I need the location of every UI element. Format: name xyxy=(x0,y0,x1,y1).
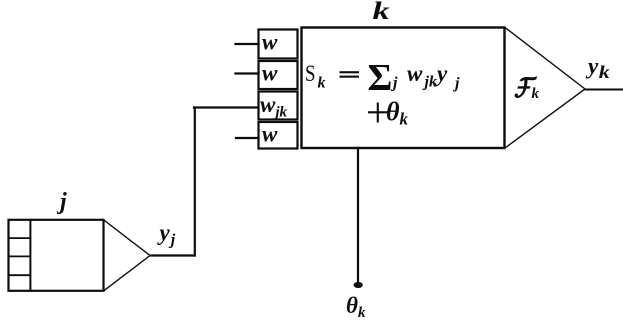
svg-text:k: k xyxy=(318,75,326,92)
svg-text:Σ: Σ xyxy=(368,57,393,99)
input unit j cell line 3 xyxy=(9,274,31,276)
input unit j activation triangle xyxy=(104,220,151,291)
svg-text:w: w xyxy=(262,30,278,55)
svg-text:θk: θk xyxy=(346,293,366,320)
wire input 3 horizontal (from node to w_jk) xyxy=(194,106,259,108)
svg-text:k: k xyxy=(532,86,540,102)
svg-text:y: y xyxy=(434,61,448,86)
svg-text:wjk: wjk xyxy=(260,92,288,121)
svg-text:jk: jk xyxy=(422,74,437,91)
svg-text:yk: yk xyxy=(585,54,610,83)
formula + theta_k xyxy=(369,97,409,129)
weight box w (input 4) xyxy=(259,122,298,149)
formula s_k = sum_j w_jk y_j xyxy=(305,57,460,99)
input unit j cell line 2 xyxy=(9,255,31,257)
svg-text:θ: θ xyxy=(386,97,400,126)
weight box w (input 1) xyxy=(259,30,298,59)
svg-text:w: w xyxy=(407,61,423,86)
input unit j outer box xyxy=(9,220,104,291)
theta terminal dot xyxy=(354,282,363,288)
activation triangle F_k xyxy=(505,28,585,149)
wire vertical riser from y_j to w_jk xyxy=(194,108,196,256)
svg-text:k: k xyxy=(400,110,409,129)
svg-text:S: S xyxy=(305,61,316,86)
input unit j cell line 1 xyxy=(9,237,31,239)
wire horizontal from y_j apex to riser xyxy=(150,254,195,256)
weight box w (input 2) xyxy=(259,61,298,89)
input unit j divider column xyxy=(29,220,31,291)
label F_k (activation function) xyxy=(515,76,540,102)
summation unit box U-k xyxy=(302,28,505,149)
svg-text:j: j xyxy=(452,75,460,92)
wire input 4 xyxy=(236,137,259,139)
svg-text:k: k xyxy=(373,0,391,25)
svg-text:w: w xyxy=(262,122,278,147)
wire input 2 xyxy=(236,72,259,74)
svg-text:j: j xyxy=(56,189,67,215)
svg-text:w: w xyxy=(262,61,278,86)
wire input 1 xyxy=(236,43,259,45)
weight box w_jk (input 3) xyxy=(259,92,298,120)
wire output y_k xyxy=(585,89,622,91)
svg-text:yj: yj xyxy=(157,220,176,249)
theta stem wire xyxy=(357,148,359,284)
